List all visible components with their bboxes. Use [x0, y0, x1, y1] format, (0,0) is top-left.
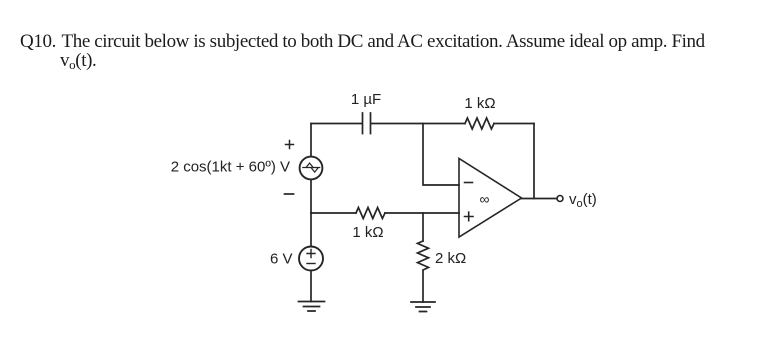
wire middle rail left [311, 212, 356, 214]
op-amp output wire [522, 198, 558, 200]
AC source sine symbol [303, 163, 320, 172]
ground right [411, 302, 435, 312]
wire middle rail right to + input [385, 212, 459, 214]
wire AC to junction [310, 180, 312, 214]
resistor 1k middle [356, 208, 385, 219]
question text line 2 [60, 50, 96, 73]
svg-text:∞: ∞ [480, 191, 490, 207]
svg-text:1 µF: 1 µF [351, 91, 381, 108]
resistor 2k [418, 241, 429, 270]
AC polarity minus [285, 193, 294, 195]
wire junction to inverting input [423, 124, 459, 186]
wire top rail right [494, 123, 534, 125]
svg-text:1 kΩ: 1 kΩ [352, 224, 383, 241]
op-amp U1 triangle [459, 159, 522, 238]
DC source plus [307, 250, 315, 258]
wire DC source to ground [310, 271, 312, 302]
svg-text:vo(t): vo(t) [569, 191, 597, 210]
AC source circle [300, 157, 323, 180]
resistor 1k top (feedback) [465, 118, 494, 129]
svg-text:1 kΩ: 1 kΩ [464, 95, 495, 112]
wire 2k bottom [422, 271, 424, 302]
AC polarity plus [286, 141, 294, 149]
output terminal node [557, 196, 563, 202]
op-amp plus sign [465, 212, 474, 221]
wire junction down to DC source [310, 213, 312, 247]
op-amp minus sign [465, 182, 473, 184]
wire top rail left [311, 123, 362, 125]
ground left [299, 302, 325, 312]
DC source V1 6V circle [299, 247, 323, 271]
question text line 1 [20, 31, 705, 53]
wire left vertical top [310, 124, 312, 157]
svg-text:6 V: 6 V [270, 251, 293, 268]
wire right vertical to output [533, 124, 535, 199]
DC source minus [307, 263, 315, 265]
svg-text:2 kΩ: 2 kΩ [435, 250, 466, 267]
wire 2k top [422, 213, 424, 241]
wire top rail mid [371, 123, 465, 125]
capacitor C 1uF [363, 113, 371, 134]
svg-text:2 cos(1kt + 60º) V: 2 cos(1kt + 60º) V [171, 159, 290, 176]
